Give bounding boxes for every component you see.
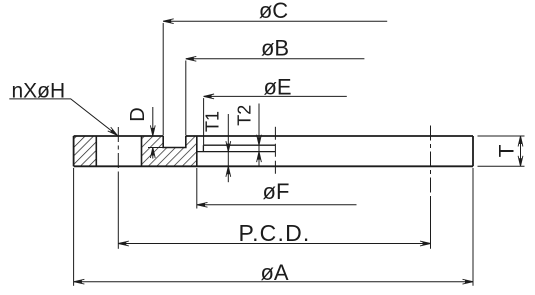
flange outline bbox=[74, 136, 473, 166]
dimension øE bbox=[204, 75, 347, 146]
svg-text:øE: øE bbox=[263, 75, 291, 100]
dimension øB bbox=[186, 36, 365, 136]
dimension T bbox=[478, 136, 525, 166]
bolt hole left wall bbox=[95, 136, 97, 166]
label nXøH with leader bbox=[9, 80, 119, 138]
svg-text:T1: T1 bbox=[202, 111, 222, 132]
svg-text:P.C.D.: P.C.D. bbox=[239, 220, 311, 246]
svg-text:T2: T2 bbox=[234, 105, 254, 126]
dimension T2 bbox=[234, 104, 261, 167]
dimension P.C.D. bbox=[118, 220, 430, 246]
dimension D bbox=[127, 107, 163, 159]
bolt hole centerline left bbox=[117, 127, 119, 173]
hatch hub section with groove notch bbox=[142, 136, 197, 166]
dimension øC bbox=[163, 0, 387, 136]
O-ring groove bbox=[163, 136, 186, 148]
svg-text:T: T bbox=[496, 144, 519, 157]
bore step vertical bbox=[202, 145, 204, 151]
bore step line A bbox=[203, 144, 275, 146]
svg-text:D: D bbox=[127, 107, 149, 121]
flange axis centerline bbox=[274, 127, 276, 177]
bore step line B bbox=[197, 151, 276, 153]
P.C.D. extension right bbox=[430, 196, 432, 249]
svg-text:øB: øB bbox=[261, 36, 289, 61]
svg-text:øC: øC bbox=[259, 0, 288, 23]
hatch left rim section bbox=[74, 136, 97, 166]
P.C.D. extension left bbox=[117, 173, 119, 249]
svg-text:øF: øF bbox=[263, 179, 290, 204]
bolt hole centerline right bbox=[430, 126, 432, 197]
dimension øA bbox=[74, 168, 473, 286]
dimension øF bbox=[197, 168, 357, 209]
bore wall bbox=[196, 136, 198, 166]
dimension T1 bbox=[202, 111, 230, 182]
bolt hole right wall bbox=[141, 136, 143, 166]
svg-text:øA: øA bbox=[260, 260, 288, 285]
